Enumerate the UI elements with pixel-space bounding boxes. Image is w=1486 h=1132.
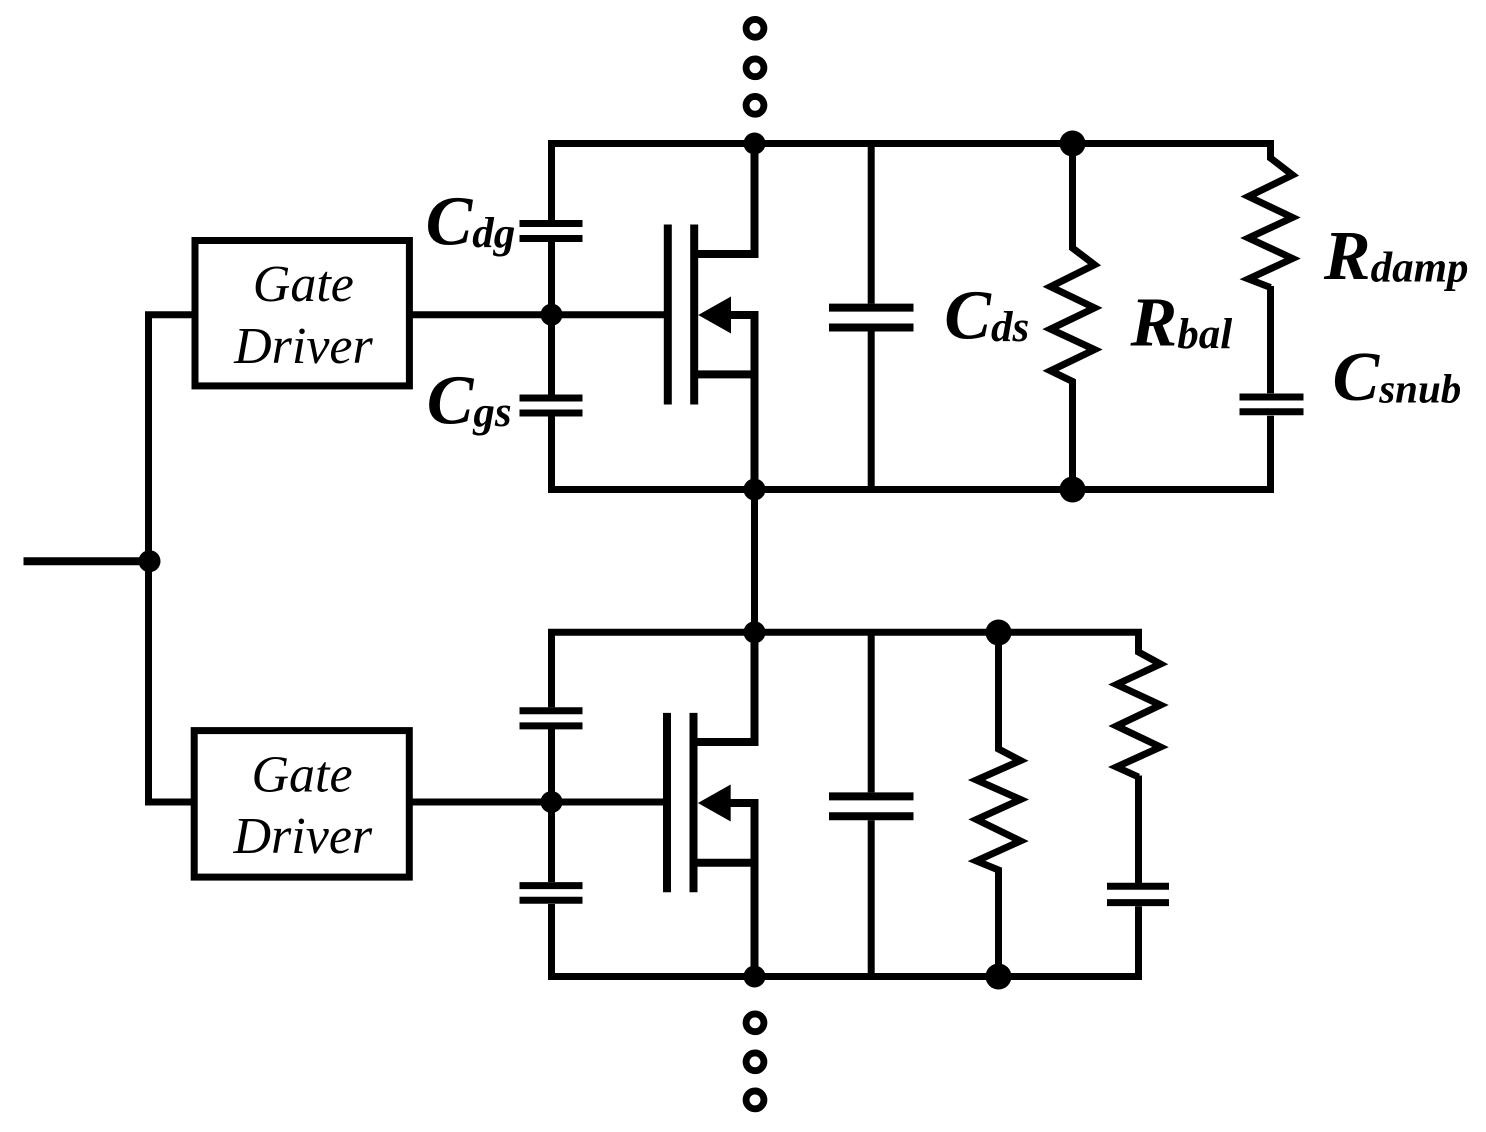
transistor Q1 channel bar [690,225,698,405]
gate driver U1 box [195,241,409,386]
transistor Q2 source connection [694,803,755,977]
transistor Q1 gate bar [664,225,672,405]
wire: cell1 left branch middle (gate node) [548,242,555,396]
wire: input lead left [24,557,151,565]
wire: Rdamp to Csnub lead [1267,286,1274,393]
node: input junction [139,550,161,572]
capacitor Cds2 branch wires [868,632,875,976]
wire: cell2 left branch middle [548,729,555,882]
node: gate node 1 [541,304,563,326]
wire: cell1 left branch top + top rail [552,144,1271,221]
transistor Q1 body diode arrow [698,297,731,334]
node: source node 1 on bottom rail [744,479,766,501]
node: Rbal1 top junction [1060,131,1086,157]
wire: gate wire from driver U2 to Q2 gate [410,799,667,806]
wire: cell2 left branch bottom + bottom rail + Csnub2 lead [552,904,1139,977]
wire: gate wire from driver U1 to Q1 gate [411,311,666,318]
svg-text:Driver: Driver [233,808,373,865]
continuation dots bottom (more stages) [746,1014,764,1109]
capacitor Cgs2 plates [520,886,583,901]
svg-text:Gate: Gate [253,256,354,313]
capacitor Csnub (upper) plates [1240,397,1304,412]
label: Gate Driver (lower) [233,747,373,866]
node: drain node 1 on top rail [744,133,766,155]
node: Rbal1 bottom junction [1060,477,1086,503]
capacitor Cds (upper) branch wires [868,144,875,490]
node: drain node 2 on cell2 top rail [744,621,766,643]
node: Rbal2 top junction [986,620,1012,646]
node: Rbal2 bottom junction [986,964,1012,990]
wire: cell2 left branch top + top rail [552,632,1139,707]
capacitor Cds2 plates [829,796,914,816]
svg-text:Gate: Gate [252,747,353,804]
gate driver U2 box [194,731,409,878]
resistor Rbal (upper) [1051,144,1095,490]
capacitor Cdg2 plates [520,711,583,726]
wire: cell1 left branch bottom + bottom rail + Csnub lead [552,416,1271,490]
transistor Q2 gate bar [663,713,671,892]
capacitor Cds (upper) plates [829,308,914,328]
capacitor Csnub2 plates [1107,886,1169,902]
node: gate node 2 [541,791,563,813]
wire: input vertical bus with stubs to both gate drivers [149,315,194,802]
resistor Rbal2 [977,633,1021,977]
resistor Rdamp (upper) [1249,144,1293,288]
wire: Rdamp2 to Csnub2 lead [1135,776,1142,884]
capacitor Cgs (upper) [520,398,583,413]
label: Gate Driver (upper) [233,256,373,375]
transistor Q1 drain connection [694,144,754,255]
transistor Q2 drain connection [694,632,755,742]
transistor Q1 source connection [694,315,754,490]
capacitor Cdg (upper) [520,224,583,239]
transistor Q2 body diode arrow [698,785,731,822]
node: source node 2 on cell2 bottom rail [744,966,766,988]
wire: link between stages [751,490,758,633]
transistor Q2 channel bar [690,713,698,892]
continuation dots top (more stages) [746,19,764,114]
resistor Rdamp2 (lower, unlabeled in figure) [1117,632,1161,777]
svg-text:Driver: Driver [233,318,373,375]
